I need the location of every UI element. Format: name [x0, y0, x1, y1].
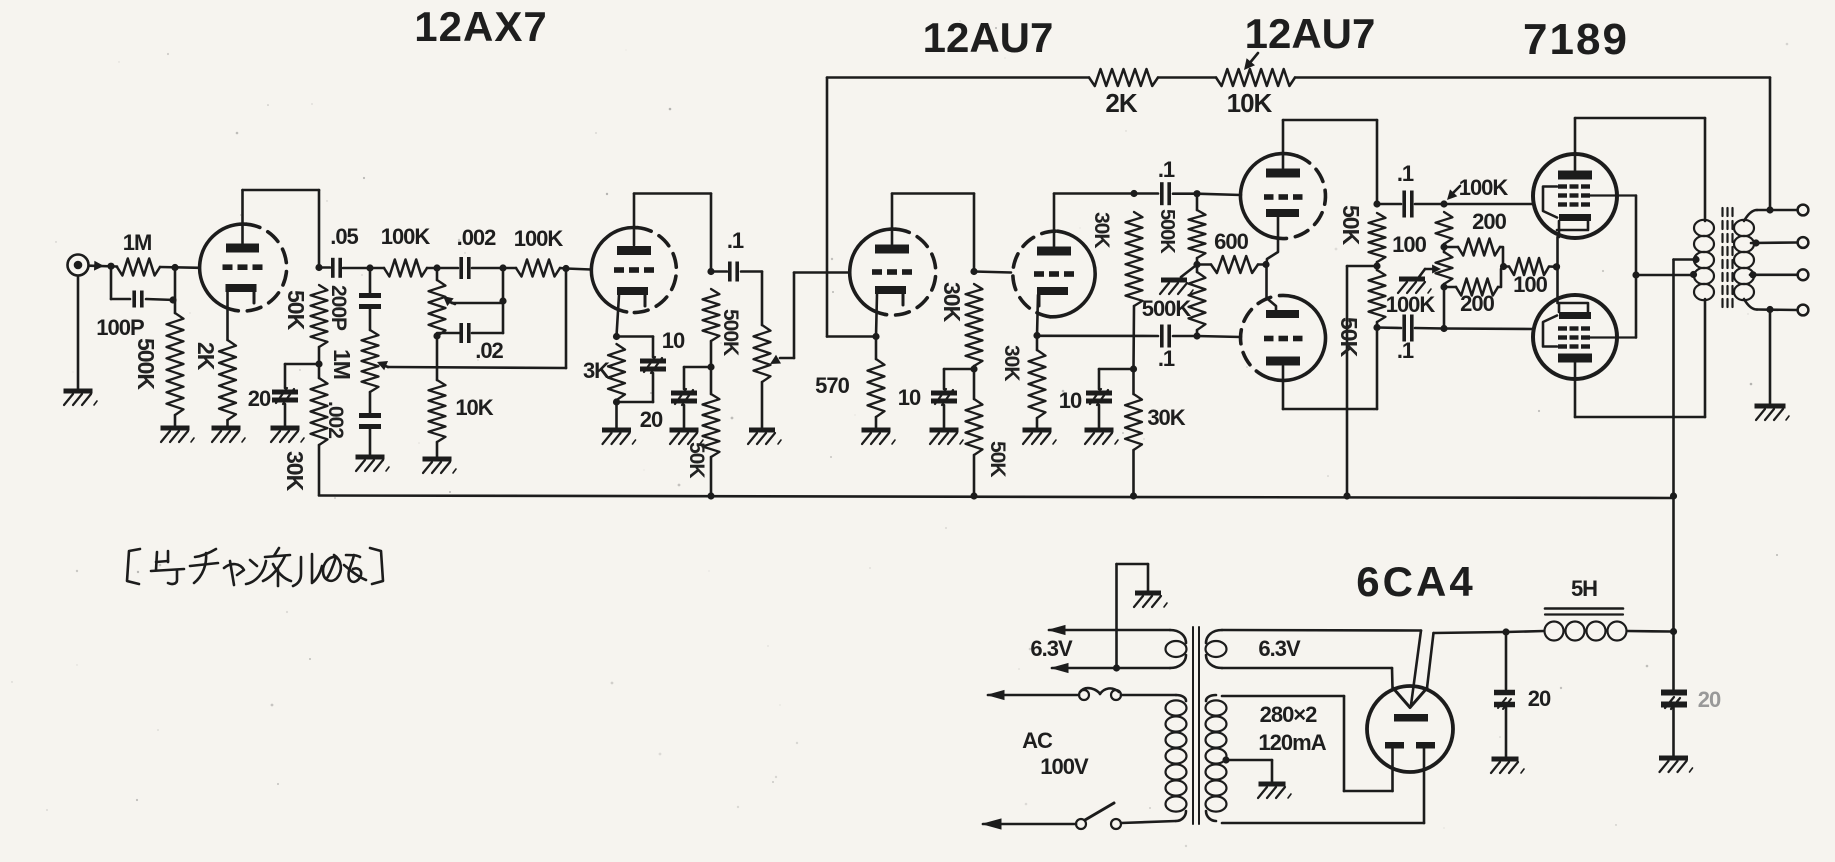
svg-text:1M: 1M: [329, 349, 355, 379]
svg-text:12AU7: 12AU7: [923, 14, 1054, 61]
svg-text:.002: .002: [324, 401, 347, 438]
svg-text:2K: 2K: [1105, 88, 1137, 118]
svg-text:.1: .1: [727, 228, 744, 253]
svg-text:.02: .02: [475, 338, 503, 363]
svg-text:12AX7: 12AX7: [414, 3, 547, 50]
svg-text:500K: 500K: [1142, 296, 1192, 321]
svg-text:500K: 500K: [1156, 209, 1178, 254]
svg-text:30K: 30K: [1090, 212, 1113, 248]
svg-text:.05: .05: [330, 224, 358, 249]
svg-text:30K: 30K: [1147, 405, 1185, 430]
svg-text:100V: 100V: [1040, 754, 1089, 779]
svg-text:100K: 100K: [514, 226, 564, 251]
svg-text:.1: .1: [1158, 346, 1175, 371]
svg-text:100: 100: [1392, 232, 1426, 257]
svg-text:100K: 100K: [381, 224, 431, 249]
svg-text:20: 20: [640, 407, 663, 432]
svg-text:120mA: 120mA: [1258, 730, 1326, 755]
svg-text:10: 10: [898, 385, 921, 410]
svg-text:7189: 7189: [1523, 15, 1629, 64]
svg-text:600: 600: [1214, 229, 1248, 254]
svg-text:100K: 100K: [1386, 292, 1436, 317]
svg-text:100P: 100P: [96, 315, 144, 340]
svg-text:5H: 5H: [1571, 576, 1597, 601]
svg-text:.1: .1: [1158, 157, 1175, 182]
svg-text:50K: 50K: [1338, 205, 1364, 246]
svg-text:30K: 30K: [282, 451, 308, 492]
svg-text:200: 200: [1460, 291, 1494, 316]
svg-text:100K: 100K: [1459, 175, 1509, 200]
svg-text:6.3V: 6.3V: [1258, 636, 1301, 661]
svg-text:2K: 2K: [193, 342, 219, 371]
svg-text:6CA4: 6CA4: [1356, 558, 1475, 605]
svg-text:3K: 3K: [583, 358, 610, 383]
svg-text:200P: 200P: [327, 285, 350, 331]
svg-text:10: 10: [662, 328, 685, 353]
svg-text:570: 570: [815, 373, 849, 398]
svg-text:10K: 10K: [455, 395, 493, 420]
svg-text:AC: AC: [1022, 728, 1053, 753]
svg-text:500K: 500K: [133, 338, 159, 390]
svg-text:1M: 1M: [123, 230, 152, 255]
svg-text:20: 20: [248, 386, 271, 411]
svg-text:20: 20: [1698, 687, 1721, 712]
svg-text:10K: 10K: [1227, 88, 1273, 118]
svg-text:200: 200: [1472, 209, 1506, 234]
svg-text:.002: .002: [457, 225, 497, 250]
svg-text:50K: 50K: [283, 290, 309, 331]
svg-text:.1: .1: [1397, 338, 1414, 363]
svg-text:.1: .1: [1397, 161, 1414, 186]
svg-text:12AU7: 12AU7: [1245, 10, 1376, 57]
svg-text:100: 100: [1513, 272, 1547, 297]
svg-text:50K: 50K: [1336, 317, 1362, 358]
svg-text:500K: 500K: [719, 309, 742, 356]
svg-text:20: 20: [1528, 686, 1551, 711]
svg-text:50K: 50K: [685, 442, 708, 478]
svg-text:6.3V: 6.3V: [1030, 636, 1073, 661]
svg-text:50K: 50K: [986, 441, 1009, 477]
svg-text:280×2: 280×2: [1260, 702, 1318, 727]
svg-text:30K: 30K: [939, 282, 965, 323]
svg-text:30K: 30K: [1000, 345, 1023, 381]
